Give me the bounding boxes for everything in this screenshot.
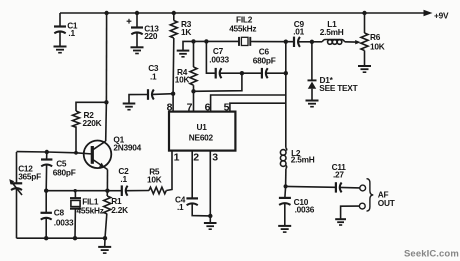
capacitor C13 (electrolytic, + mark) <box>136 13 138 27</box>
wire R3 bottom to pin8 node <box>172 38 175 94</box>
svg-text:+9V: +9V <box>434 11 449 21</box>
wire C7 branch down <box>206 41 215 73</box>
pin 3 stub <box>209 151 211 216</box>
ground (C10) <box>278 225 291 227</box>
wire lower terminal to ground <box>341 206 360 219</box>
node R2 bottom junction <box>74 151 78 155</box>
pin 8 stub <box>172 94 174 112</box>
wire L2 riser <box>285 73 287 148</box>
ground (C13) <box>131 46 144 48</box>
pin 2 stub and capacitor C4 <box>191 151 193 198</box>
resistor R5 <box>149 187 166 194</box>
wire bottom rail <box>17 237 106 239</box>
svg-text:2: 2 <box>193 151 199 163</box>
wire emitter net <box>46 190 107 192</box>
svg-text:220: 220 <box>144 31 158 41</box>
svg-text:1K: 1K <box>181 27 191 37</box>
wire midpoint down to pin7 net <box>194 73 242 91</box>
svg-text:2N3904: 2N3904 <box>113 142 141 152</box>
svg-text:455kHz: 455kHz <box>77 206 104 216</box>
ground (pin 3) <box>209 216 211 223</box>
svg-text:.1: .1 <box>120 174 127 184</box>
wiper arrow into R6 <box>355 40 361 44</box>
ground (R6) <box>358 65 371 67</box>
brace AF OUT <box>367 179 374 211</box>
node pin3/C4 junction <box>208 214 212 218</box>
capacitor C5 <box>46 152 48 159</box>
transistor Q1 <box>84 141 112 169</box>
resistor R4 <box>193 41 195 67</box>
wire base net <box>17 152 93 154</box>
svg-text:6: 6 <box>205 101 211 113</box>
svg-text:365pF: 365pF <box>18 172 41 182</box>
resistor R3 <box>173 13 175 21</box>
node C5 top junction <box>45 150 49 154</box>
pin 7 stub <box>193 91 195 111</box>
wire FIL2 out to C9 <box>250 41 293 43</box>
capacitor C6 <box>242 72 261 74</box>
svg-text:3: 3 <box>212 151 218 163</box>
diode D1 (varactor) <box>311 42 313 80</box>
svg-text:SeekIC.com: SeekIC.com <box>404 248 459 259</box>
op-amp U1 NE602 box <box>169 112 235 151</box>
node R2 tee <box>104 100 108 104</box>
svg-text:5: 5 <box>224 101 230 113</box>
svg-text:.0033: .0033 <box>54 217 74 227</box>
node emitter junction <box>105 189 109 193</box>
node pin8 junction <box>171 92 175 96</box>
capacitor C11 <box>335 182 337 192</box>
wire C6 right riser <box>285 42 287 73</box>
svg-text:.1: .1 <box>150 72 157 82</box>
svg-text:8: 8 <box>167 101 173 113</box>
svg-text:OUT: OUT <box>378 198 395 208</box>
svg-text:10K: 10K <box>370 41 385 51</box>
svg-text:NE602: NE602 <box>189 133 214 143</box>
node rail junction R6 <box>362 11 366 15</box>
filter FIL1 <box>74 191 76 198</box>
capacitor C12 (variable) <box>16 152 18 183</box>
capacitor C2 <box>107 190 121 192</box>
node L2/C10 junction <box>284 184 288 188</box>
terminal AF upper <box>360 185 366 191</box>
node C5/C8 junction <box>44 189 48 193</box>
inductor L2 <box>285 148 288 151</box>
+9V arrow <box>424 10 433 16</box>
svg-text:U1: U1 <box>197 122 208 132</box>
resistor R2 <box>76 102 106 111</box>
wire filter input net (ground stub to FIL2) <box>183 41 239 50</box>
resistor R6 (pot) <box>364 13 366 33</box>
svg-text:.0033: .0033 <box>209 55 229 65</box>
capacitor C3 <box>129 95 147 104</box>
wire top +9V rail <box>60 12 425 14</box>
svg-text:10K: 10K <box>147 175 162 185</box>
capacitor C1 <box>59 13 61 26</box>
ground (C3 left) <box>123 103 136 105</box>
inductor L1 <box>312 41 322 43</box>
svg-text:10K: 10K <box>175 75 190 85</box>
svg-text:SEE TEXT: SEE TEXT <box>319 83 357 93</box>
svg-text:.1: .1 <box>68 28 75 38</box>
node rail junction R3 <box>172 11 176 15</box>
svg-text:2.2K: 2.2K <box>111 205 128 215</box>
svg-text:1: 1 <box>174 151 180 163</box>
svg-text:680pF: 680pF <box>253 55 276 65</box>
svg-text:455kHz: 455kHz <box>229 24 256 34</box>
svg-text:2.5mH: 2.5mH <box>291 155 315 165</box>
ground (AF lower) <box>335 218 346 220</box>
node FIL1 top tee <box>74 189 77 192</box>
svg-text:220K: 220K <box>83 118 102 128</box>
svg-text:.01: .01 <box>293 26 304 36</box>
svg-text:2.5mH: 2.5mH <box>320 27 344 37</box>
wire AF out net <box>286 185 335 188</box>
capacitor C8 <box>45 191 47 213</box>
svg-text:7: 7 <box>187 101 193 113</box>
node C6 top junction <box>284 40 288 44</box>
svg-text:.0036: .0036 <box>295 205 315 215</box>
capacitor C10 <box>284 186 287 197</box>
ground (filter input) <box>177 50 190 52</box>
pin 6 wire to L2 riser <box>211 95 286 112</box>
node C7 branch junction <box>204 39 208 43</box>
capacitor C9 <box>293 37 295 47</box>
svg-text:.27: .27 <box>333 170 344 180</box>
wire collector vertical <box>105 13 107 102</box>
resistor R1 <box>106 191 108 196</box>
node D1 junction <box>310 40 314 44</box>
terminal AF lower <box>359 203 365 209</box>
node C7/C6 midpoint <box>240 71 244 75</box>
capacitor C7 <box>215 68 217 79</box>
svg-text:.1: .1 <box>177 202 184 212</box>
svg-text:680pF: 680pF <box>53 167 76 177</box>
wire emitter vertical <box>106 170 108 191</box>
filter FIL2 <box>238 37 240 46</box>
ground (bottom rail) <box>104 238 106 246</box>
ground (D1) <box>306 100 319 102</box>
node C6 right junction <box>284 71 288 75</box>
svg-text:C8: C8 <box>54 207 65 217</box>
node rail junction collector <box>104 11 108 15</box>
node rail junction C13 <box>135 11 139 15</box>
node R4 top junction <box>191 39 195 43</box>
pin 5 wire to L2 riser <box>230 103 286 111</box>
node pin7 junction <box>191 89 195 93</box>
ground (C1) <box>54 46 67 48</box>
